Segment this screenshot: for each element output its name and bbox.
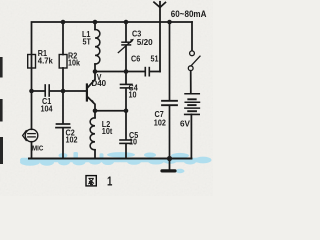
svg-text:4.7k: 4.7k bbox=[38, 56, 53, 65]
wire: collector line bbox=[95, 71, 144, 73]
capacitor C1 bbox=[32, 85, 64, 96]
capacitor C5 bbox=[120, 111, 132, 159]
resistor R2 bbox=[59, 22, 67, 91]
svg-text:5T: 5T bbox=[83, 37, 92, 47]
label R2 10k bbox=[68, 51, 81, 68]
variable capacitor C3 bbox=[118, 22, 134, 72]
antenna bbox=[154, 2, 165, 72]
label L1 5T bbox=[82, 29, 91, 46]
svg-text:10t: 10t bbox=[102, 126, 113, 136]
switch S bbox=[188, 22, 200, 92]
svg-text:5/20: 5/20 bbox=[137, 37, 153, 47]
microphone MIC bbox=[23, 91, 38, 159]
label C4 10 bbox=[129, 83, 139, 100]
resistor R1 bbox=[28, 55, 36, 69]
label V D40 bbox=[92, 72, 107, 88]
label L2 10t bbox=[102, 119, 113, 136]
ground terminal below rail bbox=[162, 159, 175, 171]
svg-text:10: 10 bbox=[129, 90, 138, 100]
svg-text:1: 1 bbox=[107, 175, 113, 189]
label MIC bbox=[32, 145, 43, 153]
battery 6V bbox=[185, 94, 200, 159]
svg-text:102: 102 bbox=[66, 135, 79, 145]
wire: base lead bbox=[63, 90, 86, 92]
wire: bottom ground rail bbox=[29, 158, 191, 160]
wire: top supply rail bbox=[32, 22, 193, 91]
caption 图 1 bbox=[86, 176, 96, 186]
label C7 102 bbox=[154, 110, 167, 128]
label 60~80mA bbox=[171, 8, 207, 19]
svg-text:D40: D40 bbox=[92, 79, 107, 88]
capacitor C6 bbox=[145, 68, 160, 76]
svg-text:60~80mA: 60~80mA bbox=[171, 8, 207, 19]
label 6V bbox=[180, 118, 190, 128]
svg-text:10: 10 bbox=[129, 137, 138, 147]
svg-text:102: 102 bbox=[154, 118, 167, 128]
svg-text:104: 104 bbox=[41, 104, 54, 114]
cyan highlight band on ground rail bbox=[20, 152, 212, 173]
label R1 4.7k bbox=[38, 48, 53, 65]
label C2 102 bbox=[66, 128, 79, 145]
inductor L2 bbox=[90, 111, 95, 159]
svg-text:C6: C6 bbox=[131, 54, 141, 64]
left edge print bleed bars bbox=[0, 57, 3, 164]
wire: emitter bus bbox=[95, 110, 126, 112]
svg-text:MIC: MIC bbox=[32, 145, 43, 153]
svg-text:51: 51 bbox=[151, 54, 160, 64]
label C5 10 bbox=[129, 130, 139, 147]
svg-text:10k: 10k bbox=[68, 58, 81, 68]
label C1 104 bbox=[41, 97, 54, 114]
inductor L1 bbox=[95, 22, 100, 72]
label C6 51 bbox=[131, 54, 159, 64]
label C3 5/20 bbox=[132, 29, 153, 47]
capacitor C7 bbox=[162, 22, 177, 159]
svg-text:6V: 6V bbox=[180, 118, 190, 128]
capacitor C4 bbox=[121, 72, 133, 111]
transistor V D40 bbox=[87, 72, 96, 111]
capacitor C2 bbox=[56, 91, 70, 159]
